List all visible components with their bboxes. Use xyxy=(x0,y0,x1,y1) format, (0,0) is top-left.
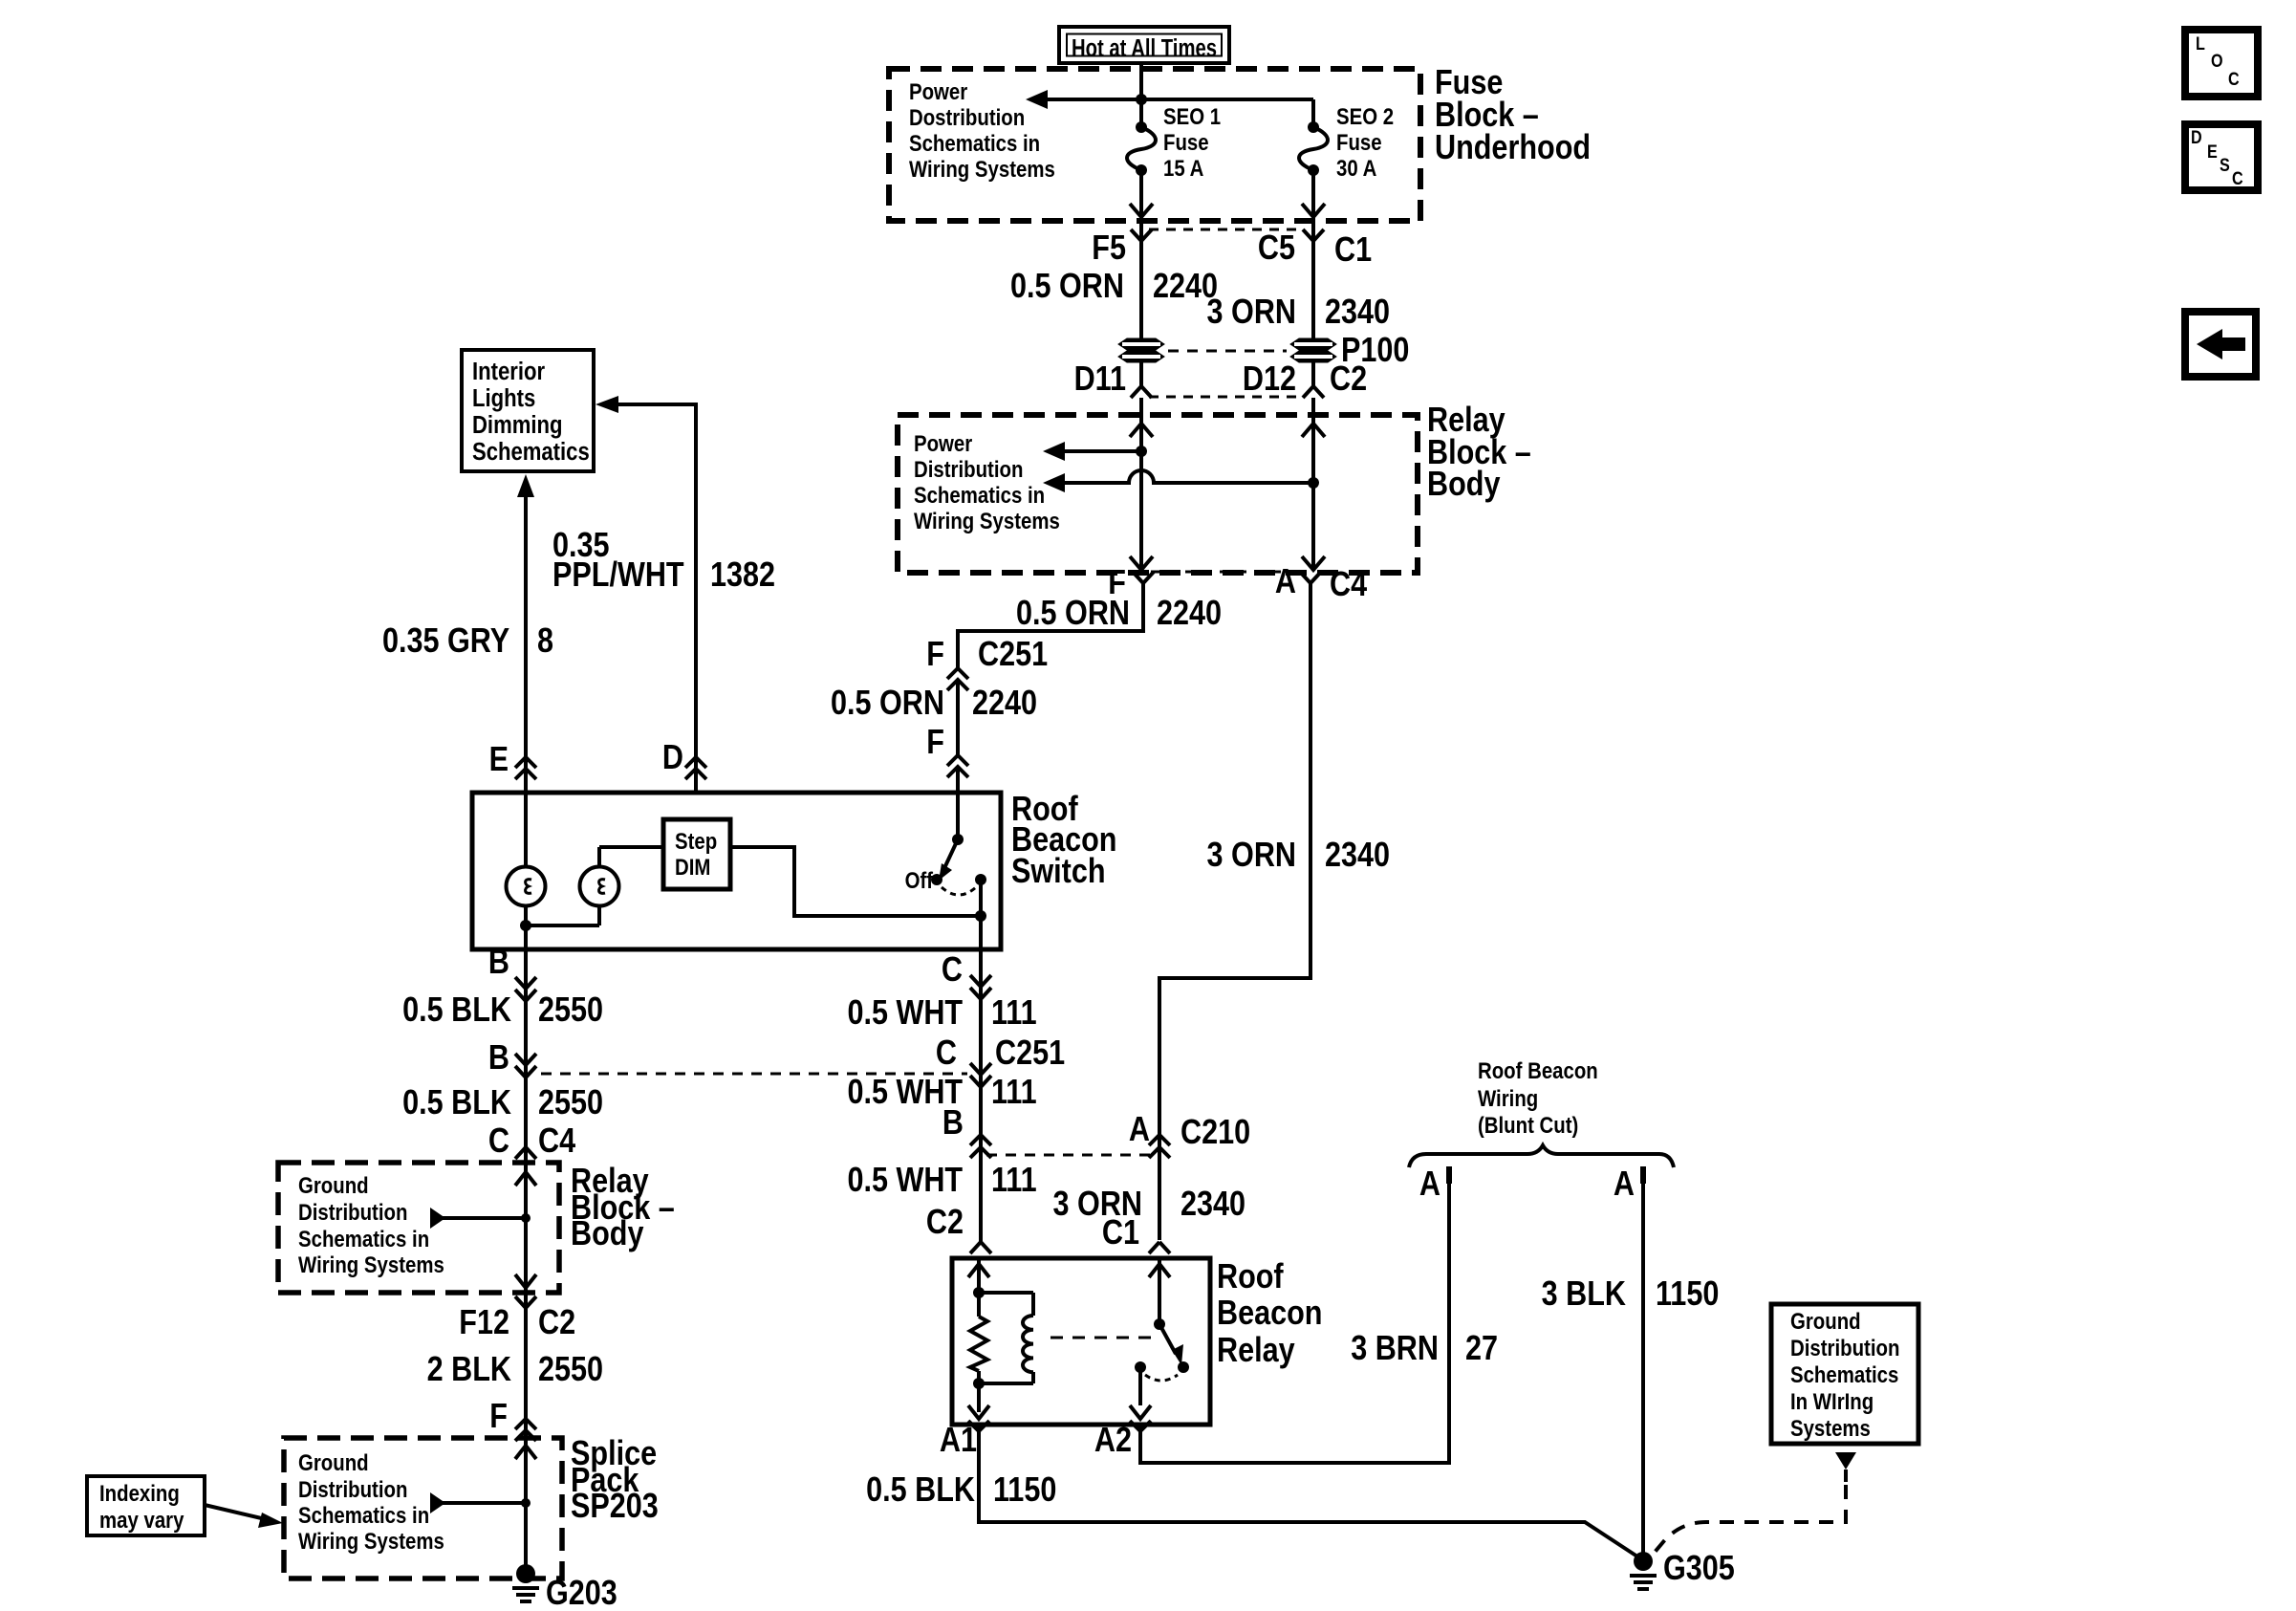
svg-text:111: 111 xyxy=(991,1074,1037,1112)
connector band dashed line top xyxy=(1149,229,1300,231)
connector A1 (Y symbol) xyxy=(940,1421,989,1460)
fuse SEO 1 15A xyxy=(1127,103,1221,217)
svg-text:Underhood: Underhood xyxy=(1435,129,1591,167)
svg-text:0.5 ORN: 0.5 ORN xyxy=(1016,595,1130,633)
label 0.35 GRY 8 xyxy=(382,622,553,661)
reference arrow right to wire (splice pack) xyxy=(430,1492,526,1513)
svg-text:2 BLK: 2 BLK xyxy=(427,1351,511,1389)
svg-text:A: A xyxy=(1129,1111,1150,1149)
connector C at switch (arrow + chevron) xyxy=(942,951,991,999)
label Fuse Block - Underhood xyxy=(1435,64,1591,167)
svg-text:A2: A2 xyxy=(1094,1422,1132,1460)
blunt cut wire A (3 BRN) xyxy=(1419,1165,1449,1204)
wire switch common down xyxy=(975,880,986,949)
svg-text:8: 8 xyxy=(537,622,553,661)
svg-text:L: L xyxy=(2196,33,2205,54)
svg-text:B: B xyxy=(488,1039,509,1078)
svg-text:A: A xyxy=(1419,1165,1440,1204)
wire F5 to P100 xyxy=(1139,218,1143,338)
connector F5 (Y symbol) xyxy=(1092,229,1152,268)
roof beacon relay box xyxy=(952,1258,1210,1425)
connector D (double chevron) xyxy=(662,739,706,779)
wire B from switch to relay block body xyxy=(524,949,528,1163)
svg-text:F5: F5 xyxy=(1092,229,1126,268)
lamp wires and bottom bus xyxy=(520,793,663,949)
reference arrow right to wire (relay block) xyxy=(430,1208,526,1229)
svg-text:1150: 1150 xyxy=(993,1471,1056,1510)
reference arrow left from left column xyxy=(1043,442,1141,461)
svg-text:Ground: Ground xyxy=(298,1172,369,1198)
svg-text:F12: F12 xyxy=(459,1304,509,1342)
svg-text:D: D xyxy=(662,739,683,777)
dashed line C251 between columns xyxy=(541,1073,967,1076)
svg-text:Wiring Systems: Wiring Systems xyxy=(909,156,1055,182)
wire bus inside fuse block with left reference arrow xyxy=(1026,90,1313,126)
connector C1 (inverted Y) xyxy=(1102,1214,1170,1253)
svg-text:D12: D12 xyxy=(1243,360,1296,399)
svg-text:Schematics in: Schematics in xyxy=(909,130,1040,156)
svg-text:Dimming: Dimming xyxy=(472,411,562,439)
in-line connector C C251 xyxy=(936,1034,1065,1087)
dashed wire from reference to G305 xyxy=(1652,1485,1846,1556)
svg-text:PPL/WHT: PPL/WHT xyxy=(552,556,684,595)
svg-text:0.35 GRY: 0.35 GRY xyxy=(382,622,509,661)
svg-text:Power: Power xyxy=(909,78,968,104)
svg-text:1150: 1150 xyxy=(1656,1275,1719,1314)
svg-text:C: C xyxy=(2232,168,2243,189)
wire A2 to blunt cut 3 BRN xyxy=(1140,1166,1449,1463)
svg-text:D: D xyxy=(2191,127,2202,148)
label 0.5 WHT 111 xyxy=(847,994,1036,1033)
svg-text:0.5 WHT: 0.5 WHT xyxy=(847,994,963,1033)
svg-text:C: C xyxy=(942,951,963,990)
svg-text:Body: Body xyxy=(1427,466,1501,504)
wire C1 to P100 xyxy=(1311,218,1315,338)
svg-text:C4: C4 xyxy=(538,1122,575,1161)
svg-text:2340: 2340 xyxy=(1325,837,1390,875)
svg-text:3 ORN: 3 ORN xyxy=(1207,294,1296,332)
Interior Lights Dimming Schematics box xyxy=(462,350,594,471)
svg-text:D11: D11 xyxy=(1074,360,1126,399)
relay block - body (lower) dashed box xyxy=(278,1163,559,1293)
svg-text:Wiring: Wiring xyxy=(1478,1085,1538,1111)
svg-text:O: O xyxy=(2211,51,2223,72)
wire A C4 down and jog to roof beacon relay C1 xyxy=(1159,583,1310,1240)
svg-text:C2: C2 xyxy=(538,1304,575,1342)
svg-text:Off: Off xyxy=(905,867,934,893)
svg-text:C: C xyxy=(2228,69,2240,90)
icon LOC box xyxy=(2185,30,2258,97)
wire right column through relay block xyxy=(1302,398,1325,571)
svg-text:Schematics: Schematics xyxy=(1790,1361,1898,1387)
svg-text:A1: A1 xyxy=(940,1422,977,1460)
svg-text:C: C xyxy=(936,1034,957,1073)
icon DESC box xyxy=(2185,124,2258,190)
label 3 BRN 27 xyxy=(1351,1330,1498,1368)
relay mechanical dashed link xyxy=(1051,1337,1153,1339)
svg-text:Body: Body xyxy=(571,1215,644,1253)
wire Step DIM to switch common xyxy=(730,847,981,916)
svg-text:C251: C251 xyxy=(995,1034,1065,1073)
label 0.5 ORN 2240 xyxy=(1016,595,1222,633)
svg-text:0.5 BLK: 0.5 BLK xyxy=(402,1084,511,1122)
label 0.5 BLK 2550 xyxy=(402,1084,603,1122)
blunt cut wire A (3 BLK) xyxy=(1614,1165,1643,1555)
connector F at switch (double chevron) xyxy=(926,724,968,777)
label 0.5 WHT 111 xyxy=(847,1074,1036,1112)
svg-text:Switch: Switch xyxy=(1011,853,1106,891)
wire A1 to ground G305 xyxy=(979,1425,1637,1557)
svg-text:111: 111 xyxy=(991,994,1037,1033)
in-line connector B / A C210 xyxy=(942,1104,1250,1158)
svg-text:Ground: Ground xyxy=(298,1449,369,1475)
Ground Distribution Schematics In Wiring Systems box (right) xyxy=(1771,1304,1918,1444)
in-line connector C251 (double chevron) xyxy=(926,636,1048,690)
label 0.5 BLK 2550 xyxy=(402,991,603,1030)
wire E up to interior lights box with arrow xyxy=(517,474,534,793)
svg-text:C5: C5 xyxy=(1258,229,1295,268)
svg-text:0.5 ORN: 0.5 ORN xyxy=(831,685,944,723)
label 0.5 ORN 2240 xyxy=(1010,268,1218,306)
svg-text:Schematics: Schematics xyxy=(472,438,590,466)
svg-text:Distribution: Distribution xyxy=(1790,1335,1899,1361)
wire F jog to C251 xyxy=(958,583,1143,669)
svg-text:E: E xyxy=(2207,142,2218,163)
label Roof Beacon Wiring (Blunt Cut) xyxy=(1478,1057,1598,1138)
svg-text:15 A: 15 A xyxy=(1163,155,1203,181)
relay block - body dashed box xyxy=(898,415,1418,573)
svg-text:2340: 2340 xyxy=(1180,1186,1245,1224)
svg-text:F: F xyxy=(926,636,944,674)
Indexing may vary box xyxy=(87,1476,205,1535)
connector F at splice pack (double chevron) xyxy=(489,1398,536,1441)
svg-text:Schematics in: Schematics in xyxy=(914,482,1045,508)
grommet P100 left xyxy=(1118,338,1164,362)
svg-text:C4: C4 xyxy=(1330,566,1367,604)
reference arrow left from right column with hop over left wire xyxy=(1043,470,1313,492)
svg-text:C251: C251 xyxy=(978,636,1048,674)
svg-text:C210: C210 xyxy=(1180,1114,1250,1152)
svg-text:Systems: Systems xyxy=(1790,1415,1871,1441)
connector band dashed line below relay block xyxy=(1151,571,1297,574)
svg-text:Distribution: Distribution xyxy=(298,1476,407,1502)
svg-text:C2: C2 xyxy=(926,1204,964,1242)
wire through lower relay block with arrows xyxy=(515,1163,536,1293)
dashed line C210 between columns xyxy=(986,1154,1153,1157)
roof beacon switch box xyxy=(472,793,1001,949)
svg-text:2550: 2550 xyxy=(538,991,603,1030)
splice pack SP203 dashed box xyxy=(284,1438,562,1578)
svg-text:Interior: Interior xyxy=(472,358,546,385)
svg-text:2240: 2240 xyxy=(1157,595,1222,633)
label 2 BLK 2550 xyxy=(427,1351,603,1389)
relay coil branch xyxy=(968,1258,1033,1419)
svg-text:Beacon: Beacon xyxy=(1217,1295,1322,1333)
svg-text:G305: G305 xyxy=(1663,1550,1735,1588)
label 3 BLK 1150 xyxy=(1542,1275,1720,1314)
svg-text:C1: C1 xyxy=(1334,231,1372,270)
svg-text:2340: 2340 xyxy=(1325,294,1390,332)
label 3 ORN 2340 xyxy=(1053,1186,1246,1224)
wire through splice pack with arrow xyxy=(515,1438,536,1568)
fuse SEO 2 30A xyxy=(1299,103,1394,217)
fuse block - underhood dashed box xyxy=(889,69,1420,221)
wire C from switch down to relay xyxy=(979,949,983,1242)
svg-text:Dostribution: Dostribution xyxy=(909,104,1025,130)
svg-text:Roof Beacon: Roof Beacon xyxy=(1478,1057,1598,1083)
label Relay Block - Body (lower) xyxy=(571,1163,675,1253)
connector B at switch (arrow + chevron) xyxy=(488,944,536,1001)
svg-text:In WIrIng: In WIrIng xyxy=(1790,1388,1874,1414)
svg-text:Lights: Lights xyxy=(472,384,535,412)
svg-text:Relay: Relay xyxy=(1217,1332,1295,1370)
svg-text:Schematics in: Schematics in xyxy=(298,1226,429,1252)
connector F below relay block (Y symbol) xyxy=(1108,564,1154,602)
svg-text:SEO 1: SEO 1 xyxy=(1163,103,1221,129)
svg-text:Distribution: Distribution xyxy=(914,456,1023,482)
svg-text:Hot at All Times: Hot at All Times xyxy=(1072,34,1217,62)
svg-text:0.5 BLK: 0.5 BLK xyxy=(402,991,511,1030)
connector C C4 (inverted Y) xyxy=(488,1122,576,1161)
connector C2 (inverted Y) xyxy=(926,1204,991,1253)
svg-text:SEO 2: SEO 2 xyxy=(1336,103,1394,129)
svg-text:Indexing: Indexing xyxy=(99,1480,180,1506)
label 0.5 BLK 1150 xyxy=(866,1471,1056,1510)
svg-text:3 ORN: 3 ORN xyxy=(1207,837,1296,875)
wire C251 to switch connector xyxy=(956,680,960,755)
ground G305 xyxy=(1630,1550,1735,1589)
wire from Hot at All Times into fuse block xyxy=(1139,63,1143,126)
svg-text:0.5 BLK: 0.5 BLK xyxy=(866,1471,975,1510)
svg-text:S: S xyxy=(2220,155,2230,176)
svg-text:F: F xyxy=(489,1398,508,1436)
svg-text:2550: 2550 xyxy=(538,1351,603,1389)
svg-text:Wiring Systems: Wiring Systems xyxy=(298,1528,444,1554)
svg-text:E: E xyxy=(489,741,509,779)
ground G203 xyxy=(512,1564,617,1611)
svg-text:SP203: SP203 xyxy=(571,1488,659,1526)
svg-text:Schematics in: Schematics in xyxy=(298,1502,429,1528)
svg-text:B: B xyxy=(488,944,509,982)
label Relay Block - Body xyxy=(1427,402,1531,504)
text Ground Distribution Schematics in Wiring Systems (splice pack) xyxy=(298,1449,444,1554)
connector E (double chevron) xyxy=(489,741,536,779)
connector D12 C2 (inverted Y) xyxy=(1243,360,1367,399)
svg-text:111: 111 xyxy=(991,1162,1037,1200)
svg-text:30 A: 30 A xyxy=(1336,155,1376,181)
svg-text:Fuse: Fuse xyxy=(1163,129,1209,155)
svg-text:27: 27 xyxy=(1465,1330,1498,1368)
svg-text:Step: Step xyxy=(675,828,717,854)
svg-text:A: A xyxy=(1614,1165,1635,1204)
svg-text:3 BLK: 3 BLK xyxy=(1542,1275,1626,1314)
brace over blunt cut wires xyxy=(1409,1145,1674,1167)
in-line connector B C251 (arrow + dashed line) xyxy=(488,1039,536,1078)
svg-text:2240: 2240 xyxy=(972,685,1037,723)
label Roof Beacon Relay xyxy=(1217,1258,1322,1370)
label 0.35 PPL/WHT 1382 xyxy=(552,527,775,595)
svg-text:B: B xyxy=(942,1104,964,1143)
connector D11 (inverted Y) xyxy=(1074,360,1152,399)
wire D up and left into interior lights box with arrow xyxy=(596,396,696,793)
label 3 ORN 2340 xyxy=(1207,837,1391,875)
switch mechanism xyxy=(905,834,986,895)
svg-text:DIM: DIM xyxy=(675,854,710,880)
label Hot at All Times xyxy=(1059,27,1229,63)
svg-text:F: F xyxy=(926,724,944,762)
icon back-arrow box xyxy=(2185,312,2256,377)
svg-text:C2: C2 xyxy=(1330,360,1367,399)
svg-text:Wiring Systems: Wiring Systems xyxy=(914,508,1060,533)
connector C5 C1 (Y symbol) xyxy=(1258,229,1372,270)
svg-text:Wiring Systems: Wiring Systems xyxy=(298,1252,444,1277)
svg-text:Fuse: Fuse xyxy=(1336,129,1382,155)
text Power Distribution Schematics in Wiring Systems xyxy=(914,430,1060,533)
svg-text:Power: Power xyxy=(914,430,973,456)
wire into roof beacon switch xyxy=(956,767,960,839)
svg-text:may vary: may vary xyxy=(99,1507,184,1533)
label Splice Pack SP203 xyxy=(571,1435,659,1526)
label 0.5 WHT 111 xyxy=(847,1162,1036,1200)
connector A C4 below relay block (Y symbol) xyxy=(1275,563,1368,604)
svg-text:G203: G203 xyxy=(546,1575,617,1611)
dashed link between P100 grommets xyxy=(1168,350,1287,353)
connector A2 (Y symbol) xyxy=(1094,1421,1151,1460)
text Ground Distribution Schematics in Wiring Systems (relay block) xyxy=(298,1172,444,1277)
svg-text:(Blunt Cut): (Blunt Cut) xyxy=(1478,1112,1578,1138)
svg-text:A: A xyxy=(1275,563,1296,601)
connector F12 C2 (Y symbol) xyxy=(459,1296,575,1342)
reference triangle below ground distribution box xyxy=(1835,1452,1856,1482)
grommet P100 right xyxy=(1290,338,1336,362)
svg-text:C1: C1 xyxy=(1102,1214,1139,1252)
connector band dashed line bottom xyxy=(1149,396,1300,399)
svg-text:Distribution: Distribution xyxy=(298,1199,407,1225)
svg-text:3 BRN: 3 BRN xyxy=(1351,1330,1439,1368)
relay switch contacts xyxy=(1130,1258,1189,1419)
label 0.5 ORN 2240 xyxy=(831,685,1037,723)
svg-text:Roof: Roof xyxy=(1217,1258,1284,1296)
wire relay block to splice pack xyxy=(524,1293,528,1438)
lamp 1 xyxy=(507,867,546,906)
svg-text:Ground: Ground xyxy=(1790,1308,1861,1334)
text Power Dostribution Schematics in Wiring Systems xyxy=(909,78,1055,182)
arrow Indexing to splice pack xyxy=(205,1505,283,1528)
svg-text:0.5 WHT: 0.5 WHT xyxy=(847,1162,963,1200)
lamp 2 xyxy=(580,867,619,906)
svg-text:0.5 ORN: 0.5 ORN xyxy=(1010,268,1124,306)
label Roof Beacon Switch xyxy=(1011,791,1116,891)
wires P100 to D11 D12 connectors xyxy=(1139,362,1143,386)
label 3 ORN 2340 xyxy=(1207,294,1391,332)
wire left column through relay block xyxy=(1130,398,1153,571)
svg-text:2550: 2550 xyxy=(538,1084,603,1122)
svg-text:1382: 1382 xyxy=(710,556,775,595)
svg-text:C: C xyxy=(488,1122,509,1161)
Step DIM box xyxy=(663,819,730,889)
